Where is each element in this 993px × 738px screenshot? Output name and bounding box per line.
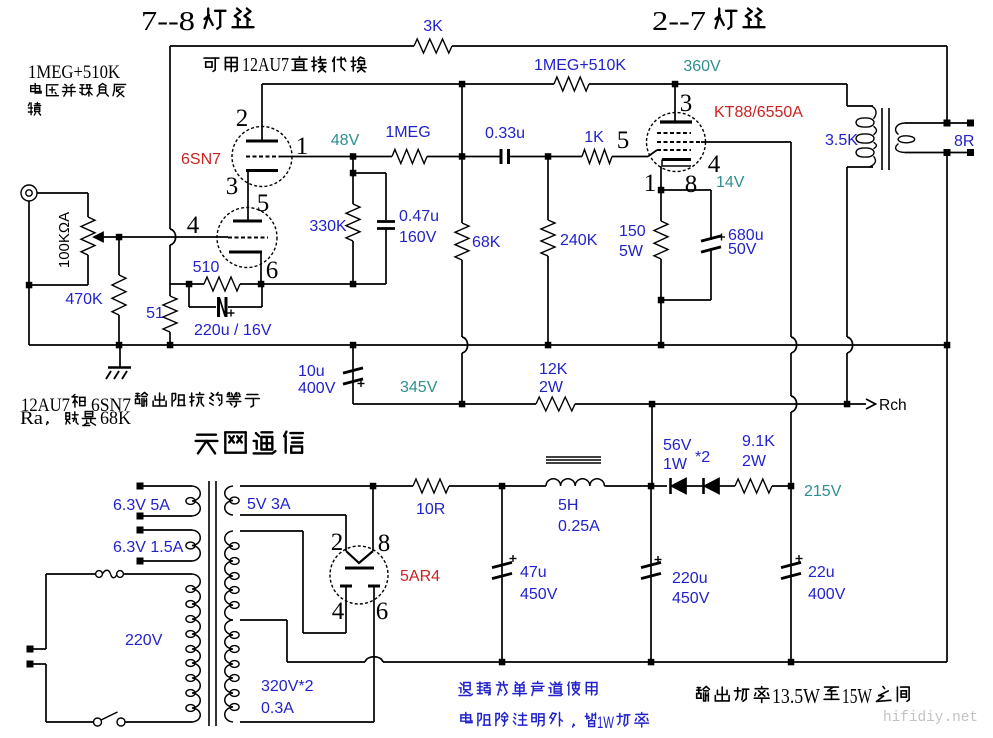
wire 6.3V1.5A bottom lead (143, 560, 192, 562)
svg-text:Ra: Ra (20, 408, 44, 429)
wire B+ line right (575, 403, 866, 405)
resistor 1K (582, 150, 612, 164)
brand tianwang tongxin (196, 435, 218, 454)
wire bypass loop bottom right (228, 306, 262, 308)
wire pot top lead (87, 193, 89, 217)
resistor 510 (204, 277, 240, 291)
tube V3 plate B bar (368, 585, 380, 588)
note resistor wattage pre (461, 713, 472, 723)
junction 330K/0.47u branch (350, 170, 357, 177)
wire 5AR4 pin8 lead (372, 486, 374, 551)
tube V1b cathode bar (229, 251, 262, 254)
wire top rail left of 3K (170, 45, 414, 47)
svg-text:1W: 1W (663, 456, 688, 473)
PT winding 320Vx2 upper (225, 531, 233, 620)
PT winding 6.3V 1.5A (192, 530, 200, 561)
svg-text:Rch: Rch (879, 397, 907, 414)
wire hop 68K column over ground rail (462, 337, 468, 353)
svg-text:*2: *2 (695, 449, 710, 466)
wire 6.3V1.5A top lead (143, 529, 192, 531)
choke core line 2 (546, 459, 601, 461)
wire 68K column to B+ line (461, 353, 463, 404)
junction 51/rail (167, 342, 174, 349)
resistor 1MEG+510K (554, 77, 589, 91)
capacitor N diagonal (220, 298, 226, 316)
wire 680u top lead (710, 190, 712, 240)
wire 470K top lead (118, 237, 120, 275)
PT winding 320Vx2 lower (225, 620, 233, 722)
wire 1MEG to 0.33u (427, 156, 501, 158)
capacitor 22u/400V (781, 562, 801, 567)
svg-text:150: 150 (619, 223, 646, 240)
ground slash 1 (106, 371, 111, 379)
resistor 10R (413, 479, 449, 493)
PT core line 1 (208, 481, 210, 726)
input jack inner (26, 190, 32, 196)
resistor 330K (346, 204, 360, 241)
resistor 9.1K 2W (735, 479, 772, 493)
wire OPT primary bottom lead h (847, 166, 873, 168)
svg-text:10u: 10u (298, 363, 325, 380)
wire 10R to choke (449, 485, 546, 487)
svg-text:220V: 220V (125, 632, 163, 649)
wire pin4 jog h (303, 632, 346, 634)
wire OPT secondary bottom lead (905, 152, 944, 154)
note zhijian (877, 687, 891, 702)
wire mains pin bottom stub (33, 663, 46, 665)
resistor 1MEG (392, 150, 427, 164)
wire 330K bottom lead (352, 241, 354, 284)
wire bypass loop right up (261, 284, 263, 307)
wire HV winding bottom lead (240, 721, 374, 723)
svg-text:160V: 160V (399, 229, 437, 246)
tube V1b top electrode bar (233, 220, 262, 223)
wire mains top left (46, 573, 95, 575)
junction 47u bottom (499, 659, 506, 666)
wire mains left vertical upper (45, 574, 47, 649)
wire ground rail (29, 344, 947, 346)
wire 0.47u top lead (385, 173, 387, 220)
svg-text:5AR4: 5AR4 (400, 568, 440, 585)
svg-text:5: 5 (257, 190, 270, 217)
svg-text:3.5K: 3.5K (825, 132, 858, 149)
svg-text:15W: 15W (842, 684, 872, 708)
junction y84/68K column (459, 81, 466, 88)
fuse circle right (117, 571, 124, 578)
note2 he (72, 395, 85, 408)
wire 5AR4 pin4 lead (345, 587, 347, 633)
tube V1a cathode bar (246, 169, 278, 172)
junction 22u top (788, 483, 795, 490)
svg-text:6SN7: 6SN7 (181, 151, 221, 168)
fuse wave (103, 570, 118, 578)
wire 68K column lower (461, 260, 463, 337)
capacitor 0.33u left plate (500, 149, 503, 164)
wire bottom rail left (287, 661, 365, 663)
wire OPT primary top lead h (847, 105, 873, 107)
wire 150R bottom lead (660, 259, 662, 300)
wire KT88 grid entry slope (648, 150, 657, 157)
PT winding 5V 3A (225, 486, 233, 515)
wire OPT primary top lead v (846, 84, 848, 106)
tube V2 grid1 dashed (657, 149, 691, 151)
tube V3 envelope 5AR4 (330, 546, 388, 604)
wire 240K top lead (547, 157, 549, 221)
tube V2 cathode bar (662, 158, 691, 161)
note kui (28, 103, 40, 116)
tube V3 heater V (346, 551, 373, 563)
junction 47u top (499, 483, 506, 490)
wire 5V winding bottom lead (240, 514, 346, 516)
svg-text:13.5W: 13.5W (772, 684, 820, 708)
tube V1a top electrode bar (246, 140, 278, 143)
wire OPT secondary top lead (905, 122, 944, 124)
junction 56V branch/B+ line (649, 401, 656, 408)
wire hop bottom rail over pin6 lead (365, 657, 383, 662)
svg-text:8R: 8R (954, 133, 974, 150)
capacitor 0.33u right plate (507, 149, 510, 164)
svg-text:240K: 240K (560, 232, 598, 249)
note2 jishi (66, 412, 78, 424)
note decoupling mono (459, 683, 473, 696)
wire D1 to D2 (686, 485, 703, 487)
wire 6.3V5A bottom lead (143, 515, 192, 517)
wire OPT primary bottom to B+ line upper (846, 167, 848, 337)
note output power (697, 687, 710, 701)
svg-text:1MEG+510K: 1MEG+510K (534, 57, 626, 74)
terminal 8R top left (944, 120, 951, 127)
svg-text:100KΩA: 100KΩA (56, 212, 73, 268)
wire 150R top lead (660, 190, 662, 221)
tube V3 cathode bar (345, 567, 374, 570)
tube V2 grid3 dashed (657, 132, 691, 134)
svg-text:4: 4 (187, 212, 200, 239)
svg-text:10R: 10R (416, 501, 445, 518)
wire feedback vertical upper (169, 46, 171, 229)
svg-text:4: 4 (332, 598, 345, 625)
wire bypass loop bottom left (189, 306, 216, 308)
svg-text:400V: 400V (808, 586, 846, 603)
junction 330K bottom (350, 281, 357, 288)
wire top rail right of 3K (452, 45, 947, 47)
input jack outer (21, 185, 37, 201)
wire feedback vertical lower (169, 245, 171, 284)
svg-text:220u: 220u (672, 570, 708, 587)
junction OPT/B+ line (844, 401, 851, 408)
wire 6.3V5A top lead (143, 485, 192, 487)
diode D1 triangle (672, 479, 687, 494)
svg-text:320V*2: 320V*2 (261, 678, 314, 695)
wire y84 right segment (589, 83, 847, 85)
wire cathode branch to ground rail (660, 300, 662, 345)
plus sign v (230, 310, 232, 317)
OPT secondary winding (896, 123, 905, 135)
junction wiper/470K (116, 234, 123, 241)
svg-text:2: 2 (331, 529, 344, 556)
svg-text:360V: 360V (683, 58, 721, 75)
wire hop screen column over ground rail (791, 337, 797, 353)
junction bypass cap left (186, 281, 193, 288)
svg-text:12K: 12K (539, 361, 568, 378)
svg-text:1MEG+510K: 1MEG+510K (28, 62, 120, 83)
title char si (233, 9, 254, 28)
arrow Rch (866, 399, 876, 409)
resistor 51 (163, 296, 177, 332)
svg-text:3K: 3K (423, 18, 443, 35)
choke core line 3 (546, 462, 601, 464)
svg-text:2: 2 (236, 105, 249, 132)
svg-text:450V: 450V (520, 586, 558, 603)
junction 22u bottom (788, 659, 795, 666)
terminal 8R bottom left (944, 149, 951, 156)
wire bypass loop left down (188, 284, 190, 307)
junction 470K/rail (116, 342, 123, 349)
wire jack to pot (37, 192, 88, 194)
svg-text:8: 8 (685, 171, 698, 198)
note2 comma (47, 422, 49, 425)
wire 22u column (790, 486, 792, 662)
wire 47u column (501, 486, 503, 662)
svg-text:48V: 48V (331, 132, 360, 149)
svg-text:7--8: 7--8 (141, 6, 195, 36)
tube V2 heater line (662, 165, 691, 167)
ground bar (108, 366, 131, 369)
junction 68K/B+ line (459, 401, 466, 408)
svg-text:8: 8 (378, 530, 391, 557)
terminal mains pin top (27, 646, 34, 653)
diode D2 cathode bar (702, 478, 705, 494)
svg-text:2W: 2W (539, 379, 564, 396)
resistor 3K (414, 39, 452, 53)
svg-text:5V 3A: 5V 3A (247, 496, 291, 513)
svg-text:0.33u: 0.33u (485, 125, 525, 142)
svg-text:5: 5 (617, 127, 630, 154)
svg-text:6.3V 5A: 6.3V 5A (113, 497, 170, 514)
capacitor 220u/16V left plate (217, 297, 220, 317)
terminal 6.3V1.5A top (137, 527, 144, 534)
wire V1b cathode lead (260, 253, 262, 284)
wire HV winding center tap (240, 619, 287, 621)
wire wiper to tube2 grid (103, 236, 228, 238)
ground slash 3 (122, 371, 127, 379)
note keyong (204, 58, 219, 71)
capacitor 220u/16V right plate (225, 297, 228, 317)
wire 470K bottom lead (118, 315, 120, 345)
wire mains bottom left (46, 721, 93, 723)
svg-text:56V: 56V (663, 437, 692, 454)
svg-text:0.3A: 0.3A (261, 700, 294, 717)
wire screen column lower (790, 412, 792, 486)
junction 150R bottom (658, 297, 665, 304)
title char si 2 (744, 9, 765, 28)
svg-text:1MEG: 1MEG (385, 124, 430, 141)
junction y84/KT88 plate (672, 81, 679, 88)
wire y84 left segment (262, 83, 554, 85)
PT winding 220V primary (192, 574, 200, 722)
wire KT88 cathode lead (660, 166, 662, 190)
svg-text:6: 6 (266, 257, 279, 284)
note zhijiedaihuan (292, 57, 307, 71)
svg-text:68K: 68K (472, 234, 501, 251)
terminal 8R bottom right (967, 149, 974, 156)
ground slash 2 (114, 371, 119, 379)
wire right vertical bottom (946, 156, 948, 662)
wire OPT bottom to B+ line lower (846, 353, 848, 404)
tube V2 cathode join (661, 160, 663, 167)
wire 1K to KT88 grid (612, 156, 648, 158)
svg-text:47u: 47u (520, 564, 547, 581)
wire 68K column upper (461, 84, 463, 223)
svg-text:330K: 330K (309, 218, 347, 235)
junction pot bottom (26, 282, 33, 289)
tube V1b grid dashed (228, 237, 268, 239)
svg-text:1: 1 (644, 170, 657, 197)
wire 51 top lead (169, 284, 171, 296)
switch circle left (94, 718, 102, 726)
svg-text:5W: 5W (619, 243, 644, 260)
resistor 150 5W (654, 221, 668, 259)
wire pot bottom lead (87, 255, 89, 285)
svg-text:2--7: 2--7 (652, 6, 706, 36)
capacitor 0.47u bottom plate (377, 227, 395, 230)
svg-text:400V: 400V (298, 380, 336, 397)
svg-text:6: 6 (376, 598, 389, 625)
junction 1K line/240K (545, 153, 552, 160)
terminal 6.3V5A top (137, 483, 144, 490)
wire V1a cathode to V1b grid (247, 172, 249, 221)
wire center tap down (286, 620, 288, 662)
plus sign h (228, 312, 235, 314)
note dianya binglian fufan (31, 84, 41, 94)
tube V1b envelope (217, 208, 277, 268)
svg-text:22u: 22u (808, 564, 835, 581)
wire hop: feedback vertical over wiper line (170, 229, 176, 245)
resistor 12K 2W (536, 397, 575, 411)
wire tube1 grid lead (261, 84, 263, 141)
svg-text:hifidiy.net: hifidiy.net (883, 709, 978, 726)
PT core line 2 (215, 481, 217, 726)
wire 0.47u bottom lead (385, 229, 387, 285)
wire choke to diode 1 (604, 485, 667, 487)
wire 5AR4 pin6 lead (373, 587, 375, 722)
wire B+ line left (353, 403, 536, 405)
svg-text:0.47u: 0.47u (399, 208, 439, 225)
wire 10u column (352, 345, 354, 404)
svg-text:14V: 14V (716, 174, 745, 191)
wire 9.1K to screen column (772, 485, 791, 487)
ground stem (119, 345, 121, 367)
wire bottom rail right (383, 661, 947, 663)
pot wiper arrow (94, 233, 103, 242)
svg-text:470K: 470K (65, 291, 103, 308)
note gonglv (617, 714, 630, 727)
svg-text:KT88/6550A: KT88/6550A (714, 104, 803, 121)
junction 240K/rail (545, 342, 552, 349)
terminal mains pin bottom (27, 661, 34, 668)
junction V1b cathode (258, 281, 265, 288)
junction 220u bottom (648, 659, 655, 666)
capacitor 680u/50V (701, 236, 721, 241)
choke 5H winding (546, 479, 604, 486)
switch lever (101, 712, 118, 720)
junction 10u/rail (350, 342, 357, 349)
wire cathode node to 680u (661, 189, 711, 191)
wire mains bottom right (125, 721, 192, 723)
svg-text:9.1K: 9.1K (742, 433, 775, 450)
junction plate line/68K column (459, 153, 466, 160)
svg-text:5H: 5H (558, 497, 578, 514)
wire 8R bottom terminal link (947, 152, 970, 154)
capacitor 220u/450V (641, 562, 661, 567)
wire mains left vertical lower (45, 664, 47, 722)
PT winding 6.3V 5A (192, 486, 200, 516)
wire 5AR4 pin2 lead (345, 515, 347, 551)
wire mains top right (124, 573, 192, 575)
junction 5AR4 cathode node (370, 483, 377, 490)
potentiometer 100K A body (81, 217, 95, 255)
wire 680u bottom lead (710, 248, 712, 300)
wire to 0.47u (353, 172, 386, 174)
resistor 240K (541, 220, 555, 256)
wire 330K top lead (352, 157, 354, 205)
wire 5V winding to 10R (240, 485, 413, 487)
svg-text:1K: 1K (584, 129, 604, 146)
svg-text:3: 3 (226, 173, 239, 200)
fuse circle left (96, 571, 103, 578)
wire screen column upper (790, 142, 792, 337)
tube V1a grid dashed (246, 156, 280, 158)
wire KT88 g2 to screen column (701, 141, 791, 143)
svg-text:0.25A: 0.25A (558, 518, 600, 535)
note2 shuchuzukangyuedengyu (136, 393, 148, 407)
tube V2 grid2 dashed (657, 141, 701, 143)
title char deng (205, 9, 226, 29)
wire cathode row left (170, 283, 204, 285)
svg-text:3: 3 (680, 90, 693, 117)
wire hop screen column over B+ line (791, 396, 797, 412)
wire D2 to 9.1K (719, 485, 735, 487)
junction right vertical/rail (944, 342, 951, 349)
note zhi (824, 687, 839, 699)
svg-text:50V: 50V (728, 241, 757, 258)
wire hop OPT bottom over ground rail (847, 337, 853, 353)
terminal 6.3V5A bottom (137, 513, 144, 520)
wire pot bottom to ground bus (29, 284, 88, 286)
resistor 68K (455, 223, 469, 260)
svg-text:215V: 215V (804, 483, 842, 500)
OPT primary winding 3.5K (871, 106, 876, 119)
tube V1a envelope 6SN7 (232, 127, 292, 187)
wire HV winding top lead (240, 530, 303, 532)
svg-text:6.3V 1.5A: 6.3V 1.5A (113, 539, 184, 556)
wire jack ground vertical (28, 201, 30, 345)
diode D1 cathode bar (669, 478, 672, 494)
svg-text:1W: 1W (597, 713, 614, 732)
capacitor 0.47u top plate (377, 220, 395, 223)
junction 150R/rail (658, 342, 665, 349)
svg-text:345V: 345V (400, 379, 438, 396)
choke core line 1 (546, 456, 601, 458)
wire 0.33u to 1K (509, 156, 583, 158)
terminal 6.3V1.5A bottom (137, 558, 144, 565)
terminal 8R top right (967, 120, 974, 127)
tube V2 envelope KT88 (647, 113, 706, 172)
svg-text:68K: 68K (100, 408, 131, 429)
svg-text:2W: 2W (742, 453, 767, 470)
capacitor 47u/450V (492, 562, 512, 567)
svg-text:450V: 450V (672, 590, 710, 607)
wire KT88 plate lead (674, 84, 676, 121)
